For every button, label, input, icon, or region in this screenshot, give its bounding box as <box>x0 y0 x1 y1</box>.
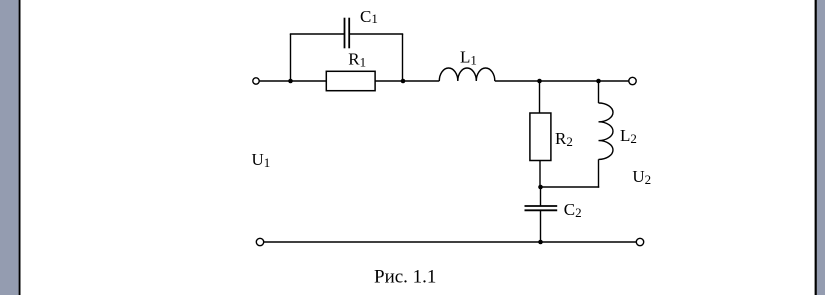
resistor R1 <box>326 50 375 91</box>
node B junction (right node of C1/R1 parallel) <box>401 79 406 84</box>
wire L2 top lead <box>598 81 600 103</box>
node D junction (top of L2) <box>596 79 601 84</box>
node F junction (C2 on bottom rail) <box>538 240 543 245</box>
wire C1 branch top-right horizontal <box>350 33 404 35</box>
terminal output top (port 2 +) <box>629 77 636 84</box>
wire top-left: input terminal to R1 left <box>259 80 326 82</box>
node C junction (top of R2) <box>537 79 542 84</box>
wire C2 bottom lead <box>540 211 542 243</box>
wire R2 bottom lead <box>539 161 541 188</box>
wire C1 branch left vertical <box>290 34 292 81</box>
node A junction (left node of C1/R1 parallel) <box>288 79 293 84</box>
wire R2 top lead <box>539 81 541 113</box>
terminal output bottom (port 2 -) <box>636 238 643 245</box>
capacitor C1 <box>345 7 378 49</box>
terminal input bottom (port 1 -) <box>256 238 263 245</box>
inductor L2 <box>599 103 637 159</box>
wire R1 right to L1 <box>375 80 439 82</box>
resistor R2 <box>530 113 573 161</box>
inductor L1 <box>439 48 495 81</box>
wire C1 branch top-left horizontal <box>290 33 344 35</box>
terminal input top (port 1 +) <box>253 78 259 84</box>
wire C1 branch right vertical <box>402 34 404 81</box>
wire C2 top lead <box>540 187 542 206</box>
wire L1 to output terminal (passes nodes C and D) <box>495 80 629 82</box>
svg-text:Рис. 1.1: Рис. 1.1 <box>374 267 436 288</box>
wire L2 bottom lead vertical <box>598 159 600 187</box>
wire bottom rail <box>264 241 637 243</box>
node E junction (R2/L2 bottom, C2 top) <box>538 185 543 190</box>
capacitor C2 <box>525 200 582 220</box>
wire L2 bottom horizontal to node E <box>540 186 599 188</box>
